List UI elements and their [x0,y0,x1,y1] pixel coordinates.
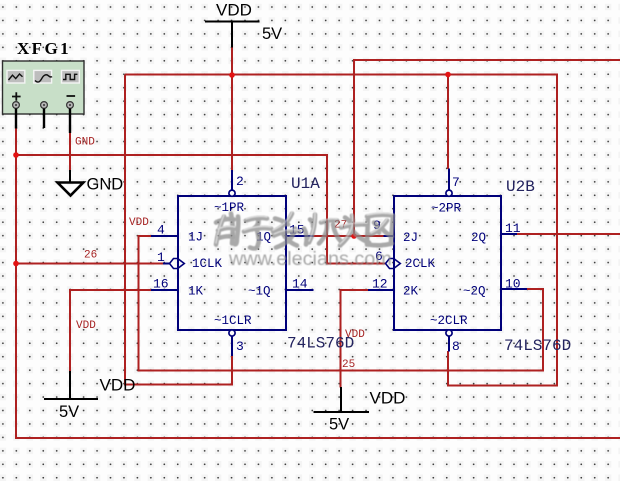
U2B body [394,196,501,330]
svg-text:2CLK: 2CLK [405,257,436,271]
U1A pin 14 stub [286,289,314,291]
svg-text:VDD: VDD [129,217,149,229]
watermark [216,212,393,270]
svg-text:U1A: U1A [291,175,320,193]
wire: VDD top symbol lead red part [231,48,233,76]
U1A pin 2 stub [231,170,233,190]
svg-text:2Q: 2Q [471,231,486,245]
svg-text:VDD: VDD [100,376,136,395]
svg-text:VDD: VDD [216,1,252,20]
U2B pin 8 bubble [446,330,452,336]
U2B pin names [403,202,486,329]
XFG1 terminal stubs [16,109,70,134]
wire: net 26 horizontal to U1A 1CLK [15,263,163,265]
svg-text:2K: 2K [403,285,419,299]
svg-text:~1Q: ~1Q [248,285,271,299]
wire: GND net red segment below XFG1 minus terminal [69,133,71,171]
U1A pin 1 stub [163,263,170,265]
U1A pin 1 clock terminal [170,259,179,269]
flip-flop U1A 74LS76D [151,170,314,356]
junction (354,235.5) [351,233,357,239]
wire: VDD vertical x=125 from top rail down to U1A pin 3 (~1CLR) [125,75,232,385]
U2B pin 12 stub [368,289,394,291]
wire: VDD (bottom-left) up and right to U1A pin 16 (1K) [70,290,151,372]
svg-text:4: 4 [157,223,165,238]
svg-text:1K: 1K [188,285,204,299]
U1A pin 2 bubble [229,190,235,196]
ground symbol [58,170,84,196]
svg-text:14: 14 [292,277,308,292]
U2B pin 9 stub [384,235,395,237]
svg-text:25: 25 [342,359,355,371]
svg-text:~2CLR: ~2CLR [430,314,468,328]
U1A pin 3 stub [231,336,233,356]
svg-text:~1CLR: ~1CLR [214,314,252,328]
svg-text:~2PR: ~2PR [431,202,462,216]
wire: U2B ~2Q (pin 10) to U1A 1J (pin 4) [139,236,544,371]
wire: net 25 U2B 2K (pin 12) to bottom-middle VDD [341,290,369,388]
svg-text:10: 10 [505,277,521,292]
svg-text:8: 8 [452,339,460,354]
power symbol VDD bottom-middle [314,387,370,412]
wire: U2B pin 10 red segment [527,288,543,290]
svg-text:~2Q: ~2Q [463,285,486,299]
wire: VDD top rail y=74.5, right side down x=557 to U2B pin 8 (~2CLR) [125,75,557,386]
junction (16,155) [13,152,19,158]
svg-text:16: 16 [153,277,169,292]
svg-text:5V: 5V [262,25,282,43]
U1A pin 3 bubble [229,330,235,336]
U1A pin 16 stub [151,289,178,291]
XFG1 body [3,61,85,114]
svg-text:VDD: VDD [76,320,96,332]
U2B pin 7 stub [448,169,450,191]
U2B pin 10 stub [501,288,527,290]
U1A pin names [188,201,271,328]
wire: XFG1 + output vertical down left edge and long bottom wire [16,128,620,438]
U1A pin 15 stub [286,235,314,237]
svg-text:www.elecians.com: www.elecians.com [228,248,392,270]
wire: VDD to U1A pin 2 (~1PR) [231,75,233,170]
svg-text:2: 2 [236,174,244,189]
junction (232,75) [229,72,235,78]
power symbol VDD bottom-left [44,371,98,399]
svg-text:5V: 5V [329,416,349,434]
junction (448,74.5) [445,72,451,78]
svg-text:VDD: VDD [370,389,406,408]
svg-text:3: 3 [236,339,244,354]
svg-text:11: 11 [505,221,521,236]
XFG1 waveform button square [62,70,80,83]
flip-flop U2B 74LS76D [368,169,527,352]
svg-text:XFG1: XFG1 [17,39,71,58]
svg-text:1CLK: 1CLK [192,257,223,271]
svg-text:26: 26 [84,250,97,262]
svg-text:1: 1 [157,250,165,265]
U1A pin 4 stub [151,235,178,237]
U1A body [178,196,286,330]
wire: net 27 U1A 1Q (pin 15) to U2B 2J (pin 9), with branch up to top right [313,235,384,237]
svg-text:2J: 2J [403,231,418,245]
U2B pin 6 clock terminal [386,259,395,269]
U1A pin numbers [153,174,308,354]
XFG1 waveform button sawtooth [7,70,25,83]
U2B pin 7 bubble [446,190,452,196]
U2B pin 11 stub [501,233,517,235]
svg-text:7: 7 [452,175,460,190]
wire: U2B 2Q (pin 11) to right edge [517,233,620,235]
XFG1 plus sign [12,92,21,101]
U2B pin numbers [372,175,521,354]
U2B pin 8 stub [448,336,450,351]
svg-text:74LS76D: 74LS76D [504,337,571,355]
svg-text:12: 12 [372,277,388,292]
svg-text:5V: 5V [59,403,79,421]
wire: net to U2B 2CLK (horizontal y=155, down at x=327, into pin 6) [15,155,385,264]
wire: VDD to U2B pin 7 (~2PR) [447,75,449,170]
svg-text:GND: GND [75,137,95,149]
junction (16,263.5) [13,261,19,267]
svg-text:1J: 1J [188,231,203,245]
XFG1 terminal + [13,102,20,109]
svg-text:U2B: U2B [506,178,535,196]
svg-text:VDD: VDD [345,329,365,341]
XFG1 terminal - [67,102,74,109]
XFG1 waveform button sine [34,70,52,83]
svg-text:GND: GND [87,176,124,194]
XFG1 minus sign [67,95,76,97]
XFG1 terminal common [41,102,48,109]
function generator XFG1 [3,61,85,133]
power symbol VDD top [205,22,260,48]
